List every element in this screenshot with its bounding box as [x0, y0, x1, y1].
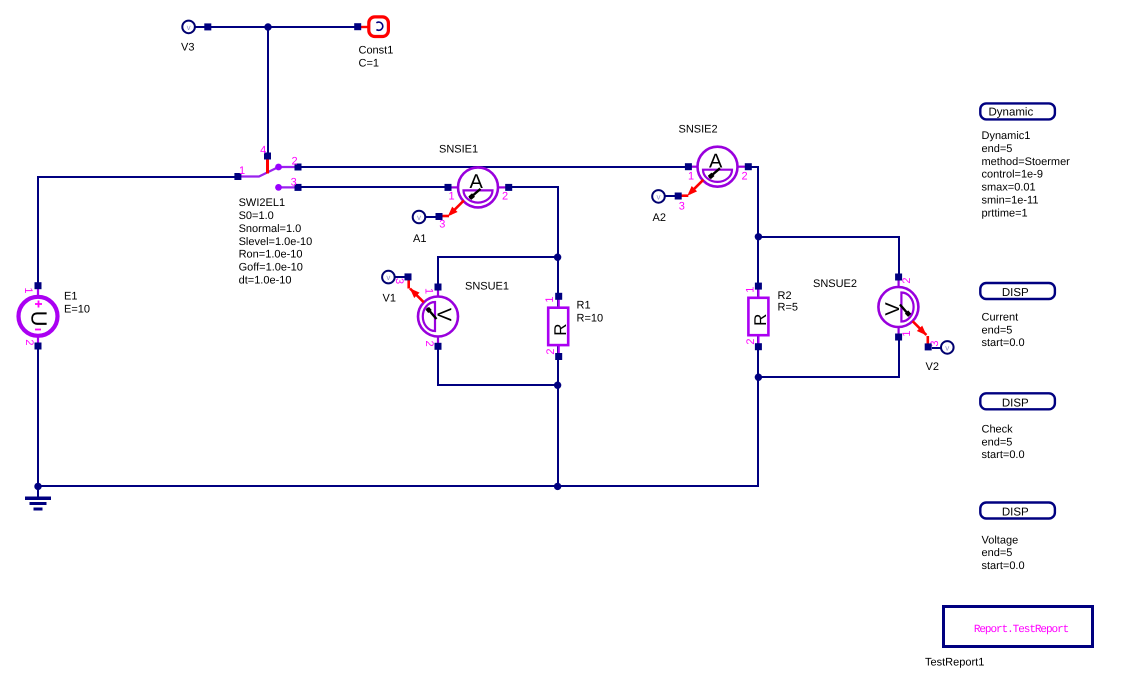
svg-text:smin=1e-11: smin=1e-11 [982, 195, 1039, 207]
svg-text:C=1: C=1 [359, 57, 380, 69]
svg-text:1: 1 [744, 287, 756, 293]
svg-text:1: 1 [901, 330, 913, 336]
svg-text:2: 2 [292, 155, 298, 167]
svg-text:A1: A1 [413, 233, 426, 245]
svg-text:Dynamic: Dynamic [989, 107, 1034, 119]
svg-text:smax=0.01: smax=0.01 [982, 182, 1036, 194]
svg-text:start=0.0: start=0.0 [982, 560, 1025, 572]
svg-text:V1: V1 [383, 293, 396, 305]
svg-text:TestReport1: TestReport1 [925, 656, 984, 668]
svg-text:V2: V2 [926, 361, 939, 373]
svg-text:V3: V3 [181, 42, 194, 54]
svg-text:end=5: end=5 [982, 547, 1013, 559]
svg-text:3: 3 [291, 177, 297, 189]
svg-text:Dynamic1: Dynamic1 [982, 130, 1031, 142]
svg-text:v: v [945, 344, 949, 353]
svg-text:DISP: DISP [1002, 397, 1029, 409]
svg-text:SNSIE2: SNSIE2 [679, 124, 718, 136]
svg-text:Ron=1.0e-10: Ron=1.0e-10 [239, 249, 303, 261]
svg-text:Goff=1.0e-10: Goff=1.0e-10 [239, 262, 303, 274]
svg-text:2: 2 [741, 170, 747, 182]
svg-text:E=10: E=10 [64, 303, 90, 315]
svg-text:control=1e-9: control=1e-9 [982, 169, 1043, 181]
svg-text:R=10: R=10 [577, 312, 604, 324]
svg-text:end=5: end=5 [982, 436, 1013, 448]
svg-text:start=0.0: start=0.0 [982, 449, 1025, 461]
svg-text:R: R [551, 323, 570, 335]
svg-text:Report.TestReport: Report.TestReport [974, 624, 1069, 636]
svg-text:1: 1 [22, 287, 34, 293]
svg-text:U: U [27, 311, 52, 327]
svg-text:SNSUE2: SNSUE2 [813, 278, 857, 290]
svg-text:2: 2 [423, 340, 435, 346]
svg-text:E1: E1 [64, 291, 77, 303]
svg-text:A2: A2 [653, 212, 666, 224]
svg-text:3: 3 [679, 200, 685, 212]
svg-text:Const1: Const1 [359, 45, 394, 57]
svg-text:1: 1 [423, 288, 435, 294]
svg-text:R1: R1 [577, 300, 591, 312]
svg-text:method=Stoermer: method=Stoermer [982, 156, 1071, 168]
svg-text:SNSIE1: SNSIE1 [439, 144, 478, 156]
svg-text:4: 4 [260, 145, 266, 157]
svg-text:Slevel=1.0e-10: Slevel=1.0e-10 [239, 236, 313, 248]
svg-text:v: v [417, 213, 421, 222]
svg-text:1: 1 [544, 297, 556, 303]
svg-text:2: 2 [23, 339, 35, 345]
svg-text:Current: Current [982, 311, 1019, 323]
svg-text:R: R [751, 314, 770, 326]
svg-text:end=5: end=5 [982, 324, 1013, 336]
svg-text:2: 2 [901, 277, 913, 283]
svg-text:1: 1 [688, 170, 694, 182]
svg-text:dt=1.0e-10: dt=1.0e-10 [239, 275, 292, 287]
svg-text:Snormal=1.0: Snormal=1.0 [239, 223, 302, 235]
svg-text:S0=1.0: S0=1.0 [239, 210, 274, 222]
svg-text:Voltage: Voltage [982, 534, 1019, 546]
svg-text:v: v [386, 273, 390, 282]
svg-text:3: 3 [439, 219, 445, 231]
svg-text:1: 1 [239, 165, 245, 177]
svg-text:v: v [187, 23, 191, 32]
svg-text:SWI2EL1: SWI2EL1 [239, 197, 285, 209]
svg-text:1: 1 [448, 191, 454, 203]
svg-text:start=0.0: start=0.0 [982, 337, 1025, 349]
svg-text:SNSUE1: SNSUE1 [465, 281, 509, 293]
svg-text:v: v [657, 193, 661, 202]
svg-text:R2: R2 [778, 290, 792, 302]
svg-text:Check: Check [982, 423, 1014, 435]
svg-text:R=5: R=5 [778, 301, 799, 313]
svg-text:prttime=1: prttime=1 [982, 207, 1028, 219]
svg-text:end=5: end=5 [982, 143, 1013, 155]
svg-text:DISP: DISP [1002, 287, 1029, 299]
svg-text:DISP: DISP [1002, 507, 1029, 519]
svg-text:2: 2 [502, 191, 508, 203]
